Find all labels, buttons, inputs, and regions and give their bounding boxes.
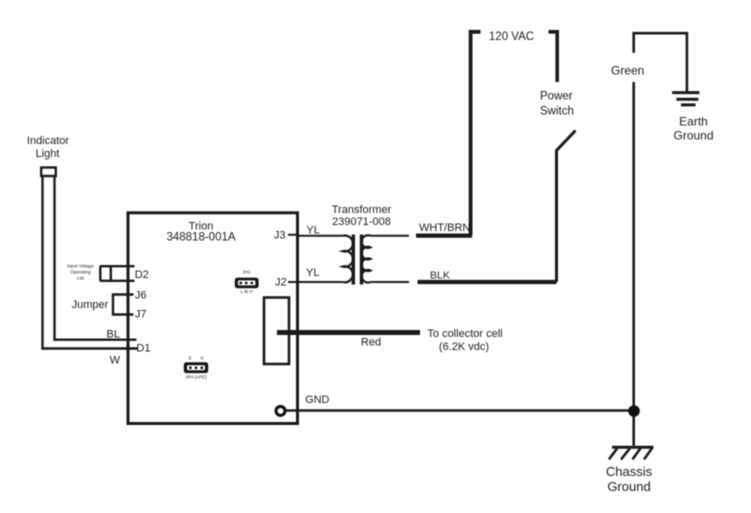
svg-text:YL: YL (306, 225, 319, 237)
svg-text:J7: J7 (135, 309, 147, 321)
svg-text:To collector cell: To collector cell (427, 328, 502, 340)
svg-text:Light: Light (36, 148, 60, 160)
svg-text:J6: J6 (135, 290, 147, 302)
svg-text:Ground: Ground (673, 129, 713, 143)
svg-text:Switch: Switch (540, 106, 574, 118)
svg-text:J3: J3 (274, 230, 286, 242)
svg-text:Operating: Operating (70, 270, 91, 275)
svg-text:(6.2K vdc): (6.2K vdc) (439, 341, 489, 353)
svg-text:Power: Power (540, 91, 573, 103)
svg-text:239071-008: 239071-008 (332, 216, 391, 228)
svg-text:D2: D2 (135, 269, 149, 281)
svg-text:JP4 (AFE): JP4 (AFE) (185, 375, 207, 380)
svg-text:Input Voltage: Input Voltage (67, 264, 94, 269)
svg-text:Earth: Earth (679, 115, 708, 129)
svg-text:List: List (77, 276, 85, 281)
svg-text:Jumper: Jumper (72, 299, 109, 311)
svg-text:JH1: JH1 (242, 270, 251, 275)
svg-text:S: S (200, 356, 203, 361)
svg-text:BLK: BLK (430, 270, 450, 282)
svg-text:YL: YL (306, 267, 319, 279)
svg-text:L M H: L M H (240, 289, 252, 294)
svg-text:BL: BL (107, 329, 120, 341)
svg-text:Chassis: Chassis (606, 464, 653, 479)
svg-text:Green: Green (611, 64, 644, 78)
svg-text:J2: J2 (275, 277, 287, 289)
svg-text:WHT/BRN: WHT/BRN (419, 222, 470, 234)
svg-text:120 VAC: 120 VAC (489, 31, 534, 43)
svg-text:Indicator: Indicator (27, 135, 70, 147)
svg-text:Red: Red (361, 337, 381, 349)
svg-text:Ground: Ground (607, 479, 650, 494)
svg-text:D1: D1 (136, 343, 150, 355)
svg-text:W: W (110, 355, 121, 367)
svg-text:Transformer: Transformer (332, 204, 392, 216)
svg-text:E: E (188, 356, 191, 361)
svg-text:GND: GND (305, 394, 329, 406)
svg-text:348818-001A: 348818-001A (166, 232, 235, 244)
